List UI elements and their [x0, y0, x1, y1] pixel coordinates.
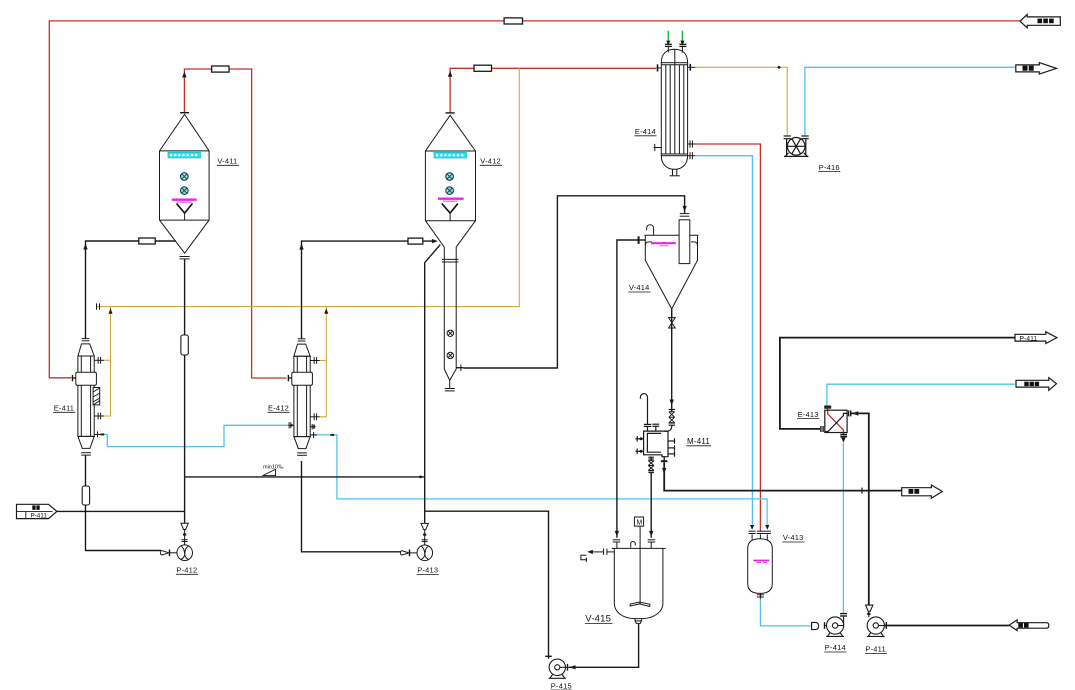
- heat exchanger E-412 inlet channel box: [292, 372, 313, 385]
- svg-text:P-414: P-414: [825, 643, 846, 652]
- plate exchanger E-413 box: [825, 410, 847, 432]
- flag feed bottom right: [1009, 620, 1049, 631]
- inline spool on E-411 bottom line: [82, 486, 89, 505]
- wire yellow stub E-411 upper: [104, 359, 111, 361]
- inline strainer on V-411 overhead: [212, 66, 229, 72]
- mixer M-411 left nozzle upper: [635, 438, 643, 440]
- wire yellow header from red junction down and left: [97, 68, 520, 307]
- tank V-413 shell: [748, 539, 773, 594]
- inline strainer on V-412 overhead: [474, 65, 492, 71]
- wire green inlet left to E-414: [667, 31, 669, 43]
- wire cyan E-411 to E-412: [101, 425, 289, 446]
- pump P-415 discharge line: [560, 666, 568, 668]
- wire cyan E-414 bottom outlet down to V-413 left nozzle: [695, 156, 752, 526]
- inline strainer on top steam header: [504, 18, 522, 24]
- heat exchanger E-412 top flange: [298, 338, 306, 340]
- vessel V-412 body top line: [425, 150, 475, 152]
- wire red main steam header top: [49, 21, 1020, 378]
- flag P-411 feed left divider: [25, 511, 27, 518]
- wire yellow stub E-412 upper: [320, 360, 327, 362]
- vessel V-412 tail nozzle stub: [456, 367, 463, 369]
- text return water flag: [1023, 66, 1028, 71]
- condenser E-414 top nozzle right: [681, 47, 683, 53]
- heat exchanger E-411 inner tube right: [90, 356, 92, 436]
- svg-text:P-412: P-412: [176, 566, 197, 575]
- arrow M-411 outlet down: [662, 468, 666, 474]
- stirred tank V-415 bottom neck: [635, 619, 642, 624]
- vacuum pump P-416 inlet flange left: [784, 135, 791, 137]
- heat exchanger E-411 red inlet tick: [72, 375, 74, 381]
- mixer M-411 swan neck vent: [640, 394, 647, 425]
- wire E-413 right to P-411: [851, 413, 869, 605]
- wire V-411 bottom down to pump P-412 funnel: [184, 259, 186, 523]
- plate exchanger E-413 top flange: [824, 405, 831, 407]
- svg-text:V-414: V-414: [629, 283, 650, 292]
- wire V-412 tailpipe nozzle to V-414 top: [463, 196, 684, 368]
- heat exchanger E-412 cyan outlet nozzle right: [310, 434, 317, 436]
- vessel V-411 internal funnel: [177, 204, 193, 214]
- condenser E-414 left vapor nozzle: [656, 67, 661, 69]
- green arrowheads: [666, 41, 684, 46]
- vessel V-411 demister band: [168, 152, 201, 158]
- cyclone V-414 bottom valve: [669, 309, 676, 334]
- plate exchanger E-413 bottom flange: [840, 434, 847, 436]
- stirred tank V-415 top nozzle left flange: [613, 539, 621, 541]
- stirred tank V-415 motor: [634, 517, 643, 526]
- pump P-411 base: [867, 633, 885, 637]
- pump P-414 hub: [832, 623, 837, 628]
- stirred tank V-415 left nozzle: [603, 549, 605, 555]
- vacuum pump P-416 rotor spokes: [787, 139, 805, 154]
- heat exchanger E-411 right lower nozzle: [94, 415, 104, 417]
- heat exchanger E-411 cyan outlet nozzle: [94, 433, 101, 435]
- stirred tank V-415 agitator shaft: [639, 526, 641, 601]
- vessel V-411 liquid level: [172, 200, 197, 203]
- junction dot P-415 discharge: [572, 666, 574, 668]
- pump P-414 discharge: [838, 617, 844, 626]
- pump P-413 casing: [417, 545, 433, 561]
- vessel V-412 apex tick: [446, 112, 455, 114]
- condenser E-414 left lower vent nozzle: [654, 147, 662, 149]
- arrow up V-411 overhead: [182, 72, 186, 78]
- wire feed flag to P-411 pump: [884, 625, 1009, 627]
- vacuum pump P-416 inlet flange right: [801, 135, 808, 137]
- inline strainer on E-411 to V-411 line: [139, 238, 155, 244]
- cyclone V-414 left overflow nozzle: [637, 239, 645, 241]
- svg-text:min10‰: min10‰: [263, 465, 284, 471]
- heat exchanger E-411 inlet channel box: [76, 372, 97, 385]
- plate exchanger E-413 left flange: [820, 426, 822, 432]
- pump P-414 base: [826, 633, 844, 637]
- vessel V-412 demister band: [434, 152, 467, 158]
- plate exchanger E-413 right flange: [848, 410, 850, 416]
- mixer M-411 inner liner: [647, 433, 661, 452]
- flag P-411 feed left: [17, 504, 57, 518]
- pump P-415 base: [549, 675, 566, 679]
- wire equalizing header y477: [185, 476, 425, 478]
- pump P-413 funnel: [400, 523, 432, 560]
- cyclone V-414 inner lip left: [645, 242, 652, 246]
- mixer M-411 right nozzle 2: [668, 447, 675, 449]
- stirred tank V-415 shell: [614, 548, 663, 618]
- text feed flag left row1: [32, 505, 35, 509]
- pump P-413 check valve: [400, 551, 408, 556]
- cyclone V-414 vent hook: [647, 225, 654, 236]
- vessel V-412 tailpipe sight glass lower: [447, 352, 453, 358]
- stirred tank V-415 impeller right: [640, 602, 650, 606]
- wire cyan P-416 discharge to return water flag: [805, 67, 1016, 136]
- stub black into E-411 nozzle: [73, 377, 76, 379]
- cyclone V-414 liquid level: [651, 243, 676, 245]
- cyclone V-414 body and cone: [645, 235, 697, 309]
- text outfeed flag: [909, 489, 914, 494]
- tick on outfeed line: [861, 488, 863, 494]
- arrow green right: [680, 41, 684, 46]
- mixer M-411 left nozzle lower: [635, 450, 643, 452]
- wire M-411 bottom left to V-415: [650, 473, 652, 538]
- pump P-412 casing: [177, 545, 193, 561]
- arrow right into V-412 cone: [432, 239, 438, 243]
- condenser E-414 tubes: [665, 65, 667, 154]
- pump P-415 hub: [555, 665, 560, 670]
- wire red V-411 overhead vapor line: [184, 69, 286, 378]
- wire E-411 top outlet up to V-411: [86, 241, 177, 339]
- mixer M-411 inlet bellows: [669, 412, 675, 423]
- flag return water right: [1016, 63, 1057, 75]
- wire V-414 cone outlet down to M-411: [671, 309, 673, 412]
- svg-text:E-413: E-413: [798, 410, 819, 419]
- heat exchanger E-412 cyan inlet nozzle left: [288, 424, 294, 426]
- vessel V-411 spray nozzle upper: [181, 173, 189, 195]
- pump P-414 suction tick: [824, 622, 826, 629]
- wire cyan E-412 outlet long line to V-413 right nozzle: [312, 435, 767, 525]
- wire yellow drop to E-412: [320, 307, 327, 417]
- svg-text:V-412: V-412: [480, 157, 501, 166]
- pump P-412 check valve: [160, 551, 168, 556]
- wire product flag line to E-413: [780, 338, 1015, 429]
- wire E-412 top outlet up to V-412: [302, 241, 434, 339]
- svg-text:M-411: M-411: [687, 437, 710, 446]
- heat exchanger E-412 red inlet tick: [287, 375, 289, 381]
- heat exchanger E-412 inner tube left: [296, 356, 298, 436]
- mixer M-411 bottom right outlet tick: [663, 457, 665, 463]
- arrow V-413 right nozzle: [765, 525, 769, 530]
- text circulating water flag: [1024, 382, 1028, 386]
- wire P-413 branch to P-415: [425, 511, 549, 659]
- condenser E-414 top tubesheet: [661, 64, 687, 66]
- arrow down into V-415 from V-414 line: [615, 531, 619, 537]
- arrow into V-415 left nozzle: [587, 550, 593, 554]
- mixer M-411 inlet elbow from V-414: [665, 425, 672, 431]
- heat exchanger E-411 bottom flange: [81, 452, 91, 454]
- wire cyan E-413 bottom to P-414: [842, 443, 844, 613]
- wire E-412 bottom to P-413 suction: [302, 461, 401, 552]
- vessel V-411 body: [160, 114, 210, 253]
- svg-text:P-411: P-411: [1020, 335, 1038, 342]
- vessel V-411 body top line: [160, 150, 210, 152]
- flag outfeed right middle: [902, 485, 943, 498]
- vessel V-411 spray nozzle lower: [181, 187, 189, 195]
- pump P-414 casing: [827, 617, 844, 634]
- wire cyan cooling water supply to E-413: [827, 384, 1015, 405]
- heat exchanger E-411 right upper nozzle: [94, 359, 104, 361]
- tank V-413 top nozzle center: [759, 534, 761, 538]
- svg-text:V-413: V-413: [783, 533, 804, 542]
- heat exchanger E-411 shell: [78, 356, 94, 436]
- vessel V-412 body: [425, 115, 475, 380]
- svg-text:P-413: P-413: [417, 566, 438, 575]
- wire M-411 bottom right outlet: [664, 463, 902, 491]
- wire red V-412 overhead vapor line: [450, 68, 656, 113]
- svg-text:E-414: E-414: [635, 127, 656, 136]
- vessel V-412 spray nozzle upper: [446, 173, 454, 195]
- condenser E-414 right yellow nozzle: [688, 66, 696, 68]
- dash on E-412 cyan outlet: [331, 434, 335, 436]
- wire red E-413 internal hot side: [828, 408, 844, 435]
- heat exchanger E-412 right lower nozzle: [310, 416, 320, 418]
- mixer M-411 right nozzle 1: [668, 440, 675, 442]
- mixer M-411 top left nozzle: [647, 427, 649, 432]
- svg-text:V-415: V-415: [585, 614, 611, 625]
- stirred tank V-415 rim: [612, 547, 666, 549]
- flag circulating water right: [1016, 378, 1057, 391]
- heat exchanger E-412 inner tube right: [306, 356, 308, 436]
- flag steam inlet top right: [1020, 15, 1060, 28]
- arrow up E-412 outlet elbow: [299, 244, 303, 250]
- pump P-415 casing: [549, 659, 565, 675]
- mixer M-411 outer casing: [644, 431, 668, 457]
- wire V-414 left overflow down to V-415: [617, 240, 639, 538]
- arrow left into P-415 suction elbow: [570, 665, 576, 669]
- svg-text:P-411: P-411: [31, 513, 48, 520]
- vessel V-412 body bottom line: [425, 220, 475, 222]
- vacuum pump P-416 base: [784, 153, 808, 157]
- arrow down into V-415 from M-411 line: [649, 531, 653, 537]
- arrow up E-411 outlet elbow: [83, 244, 87, 250]
- condenser E-414 shell: [661, 63, 687, 156]
- mixer M-411 right nozzle 3: [668, 453, 675, 455]
- wire yellow E-414 outlet to P-416: [695, 67, 787, 136]
- heat exchanger E-412 bottom cone: [294, 437, 310, 449]
- tank V-413 top nozzle left: [751, 534, 753, 540]
- vessel V-412 tailpipe sight glass upper: [447, 330, 453, 336]
- label underlines: [53, 136, 887, 690]
- condenser E-414 bottom tubesheet: [661, 153, 687, 155]
- wire feed flag line y511: [57, 510, 185, 512]
- mixer M-411 top second nozzle: [655, 427, 657, 432]
- stirred tank V-415 vent elbow: [581, 555, 587, 562]
- heat exchanger E-411 bottom cone: [78, 436, 94, 448]
- cyclone V-414 tube top flange: [680, 213, 690, 215]
- wire yellow drop to E-411: [104, 307, 111, 416]
- arrow V-413 left nozzle: [750, 525, 754, 530]
- slope marker min10: [263, 469, 276, 475]
- svg-text:E-411: E-411: [54, 404, 74, 413]
- cyclone V-414 vortex finder tube: [679, 220, 690, 264]
- tank V-413 top nozzle right: [766, 534, 768, 540]
- heat exchanger E-412 top reducer: [294, 344, 310, 356]
- wire P-415 discharge to V-415 bottom: [569, 623, 639, 667]
- condenser E-414 right red nozzle flange: [689, 140, 691, 147]
- vessel V-411 body bottom line: [160, 219, 210, 221]
- heat exchanger E-412 right upper nozzle: [310, 360, 320, 362]
- vessel V-411 bottom flange: [180, 256, 190, 258]
- vessel V-412 liquid level: [438, 199, 464, 202]
- vessel V-412 spray nozzle lower: [446, 187, 454, 195]
- tank V-413 liquid level: [753, 561, 769, 563]
- pump P-411 hub: [873, 623, 878, 628]
- mixer M-411 bottom left flange: [650, 457, 652, 461]
- vessel V-412 internal funnel: [442, 204, 458, 214]
- pump P-411 casing: [867, 617, 884, 634]
- pump P-414 suction reducer: [812, 622, 819, 629]
- heat exchanger E-411 inner tube left: [80, 356, 82, 436]
- arrow green left: [666, 41, 670, 46]
- text steam inlet flag: [1038, 19, 1043, 24]
- vacuum pump P-416 casing: [787, 138, 805, 156]
- text feed flag bottom right: [1018, 623, 1023, 628]
- pump P-415 suction tick: [545, 655, 552, 657]
- stirred tank V-415 top nozzle right flange: [648, 539, 656, 541]
- svg-text:M: M: [637, 520, 643, 527]
- vessel V-411 apex tick: [180, 112, 189, 114]
- arrow into E-412 left cyan nozzle: [291, 424, 294, 428]
- arrow down into V-414 vortex tube: [682, 206, 686, 212]
- svg-text:P-415: P-415: [551, 682, 572, 690]
- heat exchanger E-411 top reducer: [78, 344, 94, 356]
- svg-text:E-412: E-412: [268, 404, 289, 413]
- plate exchanger E-413 cold diagonal: [825, 413, 847, 431]
- vessel V-412 tailpipe cone stem: [449, 380, 451, 388]
- tank V-413 bottom nozzle: [759, 594, 761, 599]
- inline strainer on E-412 to V-412 line: [408, 238, 423, 244]
- arrow down on V-414 outlet line: [670, 400, 674, 406]
- junction dot yellow cyan split: [778, 66, 781, 69]
- yellow line break ticks: [97, 303, 100, 309]
- pump P-411 funnel: [866, 605, 873, 611]
- cyclone V-414 inner lip right: [691, 242, 698, 246]
- cyclone V-414 rim: [645, 234, 699, 236]
- dash on E-411 cyan outlet: [101, 433, 105, 435]
- condenser E-414 right cyan nozzle flange: [689, 152, 691, 159]
- stirred tank V-415 impeller left: [630, 602, 640, 606]
- heat exchanger E-411 hatched support: [93, 388, 100, 405]
- svg-text:V-411: V-411: [217, 157, 237, 166]
- wire V-412 diagonal branch to P-413 drop: [425, 245, 441, 524]
- arrow E-413 bottom outlet: [841, 438, 845, 443]
- flag P-411 product right: [1015, 332, 1057, 344]
- arrow up V-412 overhead: [448, 71, 452, 77]
- heat exchanger E-412 bottom flange: [297, 452, 307, 454]
- vacuum pump P-416 side plates: [786, 139, 788, 155]
- condenser E-414 top dome: [661, 49, 687, 63]
- flag P-411 feed left mid line: [17, 510, 53, 512]
- svg-text:P-416: P-416: [819, 163, 840, 172]
- condenser E-414 support leg: [672, 169, 674, 175]
- arrow up yellow at E-411: [109, 308, 113, 313]
- heat exchanger E-411 top flange: [82, 338, 90, 340]
- mixer M-411 outlet bellows: [648, 461, 654, 471]
- vessel V-412 tailpipe bottom flange: [445, 388, 455, 390]
- inline spool on V-411 bottom line: [181, 335, 188, 355]
- pump P-412 funnel: [160, 523, 192, 560]
- heat exchanger E-412 shell: [294, 356, 310, 436]
- wire green inlet right to E-414: [681, 31, 683, 43]
- condenser E-414 bottom dome: [661, 156, 687, 170]
- stub black into E-412 nozzle: [288, 377, 291, 379]
- wire cyan V-413 bottom to P-414 suction: [760, 599, 811, 626]
- wire red E-414 condensate to V-413: [695, 144, 760, 531]
- junction dot equalizer at P-413 drop: [419, 476, 422, 479]
- stirred tank V-415 vent hook: [631, 541, 636, 547]
- wire E-411 bottom to P-412 suction: [86, 455, 162, 550]
- arrow into E-413 right nozzle: [852, 411, 858, 416]
- svg-text:P-411: P-411: [865, 645, 885, 654]
- capped stub nozzle E-412 right: [310, 424, 315, 429]
- vessel V-412 tailpipe flange: [442, 258, 458, 260]
- pump P-411 discharge: [879, 625, 885, 627]
- arrow up yellow at E-412: [324, 308, 328, 313]
- condenser E-414 top nozzle left: [667, 47, 669, 53]
